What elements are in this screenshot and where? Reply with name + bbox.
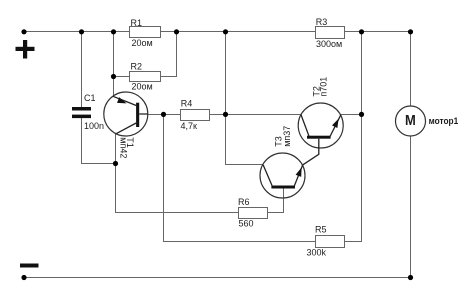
node R3 right branch [359,29,364,34]
resistor R2 [130,61,161,91]
node T2 emitter [359,112,364,117]
svg-text:20ом: 20ом [132,38,153,48]
wire x=361 vertical rail to R5 [345,32,362,242]
resistor R6 [238,197,268,228]
wire bottom rail [24,277,411,279]
svg-text:R6: R6 [238,197,250,207]
wire T1 collector down to R6 [116,134,239,213]
wire C1 top branch [81,32,83,108]
wire T1 base node down to R5 left [164,115,316,242]
svg-text:мп42: мп42 [119,137,129,158]
node motor bottom [408,275,413,280]
svg-text:R2: R2 [131,61,143,71]
transistor T1 [104,92,148,158]
svg-text:C1: C1 [84,93,96,103]
node T1 base [161,112,166,117]
svg-text:мп37: мп37 [282,126,292,147]
transistor T2 [298,77,343,165]
wire x=225 vertical to T3 collector [226,32,264,165]
svg-text:мотор1: мотор1 [429,116,459,127]
wire motor bottom lead [410,136,412,278]
svg-text:R1: R1 [131,18,143,28]
svg-text:п701: п701 [319,77,329,97]
node R3 left branch [223,29,228,34]
node R2 left [111,74,116,79]
wire top rail right segment [345,31,411,33]
wire R2 left lead [114,76,130,78]
svg-text:R5: R5 [315,224,327,234]
capacitor C1 [72,93,104,131]
node C1 top [79,29,84,34]
svg-text:100n: 100n [84,121,104,131]
wire top rail middle segment [161,31,316,33]
svg-text:M: M [405,112,416,129]
svg-text:R4: R4 [181,98,193,108]
svg-text:4,7к: 4,7к [181,121,198,131]
motor M1 [396,106,459,136]
transistor T3 [260,126,305,198]
wire node to T2 collector [226,114,302,116]
wire C1 bottom branch [82,118,116,164]
node bottom-left terminal [21,275,26,280]
node top-left terminal [21,29,26,34]
wire R2 right lead up to rail [161,32,177,77]
node C1/T1 collector [113,161,118,166]
node R1 right [174,29,179,34]
resistor R3 [316,17,345,49]
wire R6 right to T3 base [268,189,284,213]
resistor R1 [130,18,161,48]
wire motor top lead [410,32,412,107]
wire T2 emitter to node [341,114,362,116]
terminal minus [20,264,39,268]
node R4 right [223,112,228,117]
wire R4 right to node [210,114,226,116]
node motor top [408,29,413,34]
wire T1 base to R4 [148,114,181,116]
wire top rail left segment [24,31,130,33]
resistor R4 [181,98,210,130]
svg-text:20ом: 20ом [132,82,153,92]
svg-text:560: 560 [239,218,254,228]
node R1 left [111,29,116,34]
terminal plus [16,40,35,59]
svg-text:300ом: 300ом [316,39,342,49]
svg-text:R3: R3 [316,17,328,27]
resistor R5 [307,224,345,257]
svg-text:300k: 300k [307,247,327,257]
wire R2/T1-emitter branch x=113 [113,32,115,97]
